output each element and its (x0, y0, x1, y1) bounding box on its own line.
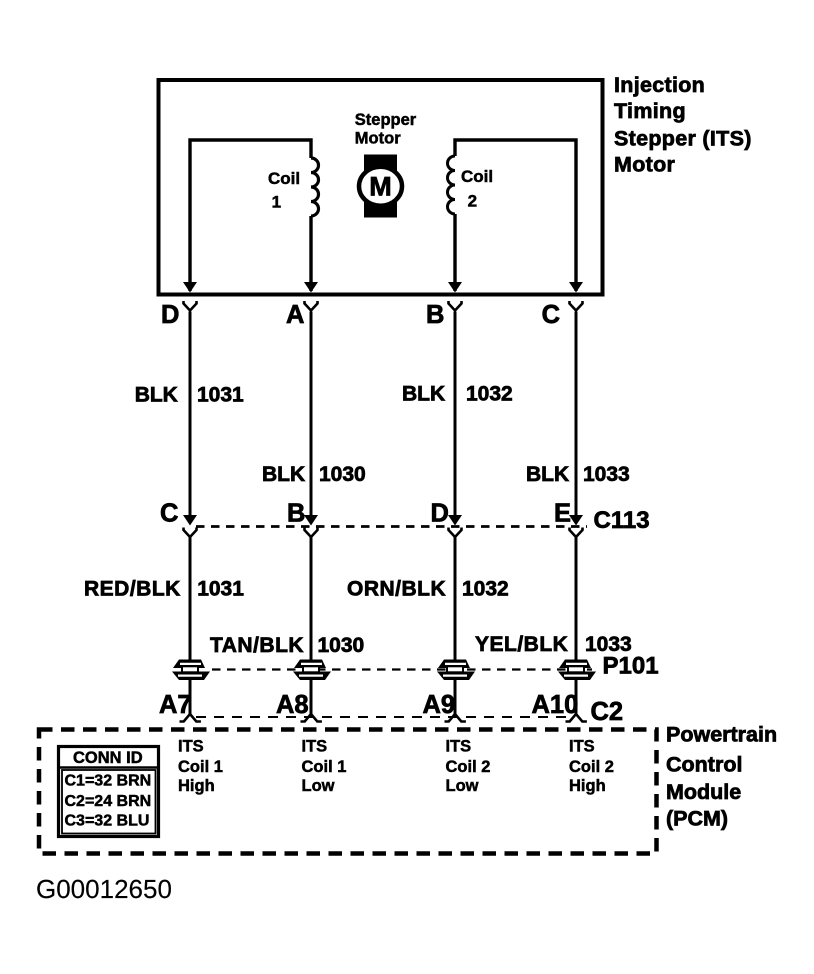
svg-text:C2=24 BRN: C2=24 BRN (65, 793, 152, 810)
svg-text:Coil 1: Coil 1 (178, 758, 223, 776)
label: BLK 1032 (402, 383, 513, 406)
svg-text:Timing: Timing (614, 99, 686, 123)
svg-text:C2: C2 (591, 698, 624, 726)
PCM pin terminals (180, 714, 201, 722)
svg-text:1031: 1031 (197, 578, 244, 601)
svg-text:M: M (369, 172, 392, 202)
svg-text:E: E (554, 500, 571, 528)
svg-text:Control: Control (666, 753, 742, 777)
C113 female terminals (184, 528, 197, 538)
connector C113 dashed line (196, 525, 587, 528)
svg-text:ITS: ITS (302, 738, 328, 756)
svg-text:Coil: Coil (461, 167, 493, 186)
connector P101 dashed line (212, 668, 592, 670)
svg-text:Coil 2: Coil 2 (569, 758, 614, 776)
svg-text:C1=32 BRN: C1=32 BRN (65, 773, 152, 790)
svg-text:1030: 1030 (318, 634, 365, 657)
svg-text:CONN ID: CONN ID (73, 749, 143, 767)
label: Injection Timing Stepper (ITS) Motor (614, 73, 752, 176)
svg-text:High: High (569, 777, 606, 795)
arrowheads at motor box bottom (pins D A B C) (183, 282, 197, 293)
svg-text:1032: 1032 (466, 383, 513, 406)
PCM pin function: ITS Coil 2 High (569, 738, 614, 795)
svg-text:BLK: BLK (135, 383, 178, 406)
svg-text:B: B (426, 301, 444, 329)
coil L1 (inductor winding, bulge right) (311, 158, 319, 216)
label: Powertrain Control Module (PCM) (666, 722, 777, 830)
svg-text:A: A (286, 301, 304, 329)
label: Coil 1 (268, 169, 300, 212)
svg-text:ITS: ITS (178, 738, 204, 756)
P101 inline connector symbols (173, 660, 205, 669)
svg-text:1033: 1033 (583, 463, 630, 486)
svg-text:C3=32 BLU: C3=32 BLU (65, 813, 150, 830)
label: ORN/BLK 1032 (347, 578, 509, 601)
svg-text:High: High (178, 777, 215, 795)
svg-text:Low: Low (302, 777, 335, 795)
ITS motor assembly box (159, 80, 603, 295)
svg-text:(PCM): (PCM) (666, 807, 728, 831)
svg-text:Low: Low (446, 777, 479, 795)
svg-text:D: D (431, 500, 449, 528)
CONN ID table (57, 747, 160, 837)
svg-text:1: 1 (272, 193, 281, 212)
PCM module dashed box (39, 730, 657, 854)
svg-text:1030: 1030 (319, 463, 366, 486)
svg-text:Motor: Motor (614, 153, 676, 177)
wire: coil 1 loop (left leg D, top, right leg A) (190, 140, 311, 291)
label: TAN/BLK 1030 (210, 634, 364, 657)
arrowheads at C113 (183, 515, 197, 526)
svg-text:YEL/BLK: YEL/BLK (475, 633, 568, 656)
svg-text:TAN/BLK: TAN/BLK (210, 634, 304, 657)
svg-text:B: B (287, 500, 305, 528)
svg-text:A9: A9 (423, 691, 456, 719)
svg-text:ITS: ITS (446, 738, 472, 756)
PCM pin function: ITS Coil 2 Low (446, 738, 491, 795)
label: Stepper Motor (355, 111, 417, 148)
label: RED/BLK 1031 (84, 578, 244, 601)
motor M (stepper) (359, 155, 402, 218)
wire: coil 1 right leg lower (309, 216, 312, 291)
svg-text:A10: A10 (532, 691, 579, 719)
wire segments P101 to PCM (189, 680, 192, 715)
svg-text:Coil: Coil (268, 169, 300, 188)
wire segments box to C113 (189, 312, 192, 517)
svg-text:D: D (161, 301, 179, 329)
label: BLK 1031 (135, 383, 244, 406)
PCM pins dashed line (196, 716, 568, 718)
label: YEL/BLK 1033 (475, 633, 632, 656)
svg-text:Module: Module (666, 780, 741, 804)
svg-text:Motor: Motor (355, 129, 401, 147)
label: Coil 2 (461, 167, 493, 211)
svg-text:A7: A7 (159, 691, 192, 719)
coil L2 (inductor winding, bulge left) (448, 156, 456, 214)
motor connector female terminals below box (184, 301, 197, 311)
svg-text:Stepper (ITS): Stepper (ITS) (614, 126, 752, 150)
svg-text:P101: P101 (603, 653, 659, 680)
svg-text:BLK: BLK (262, 463, 305, 486)
svg-text:Powertrain: Powertrain (666, 722, 777, 746)
wire: coil 2 loop (left leg B, top, right leg C) (455, 140, 576, 291)
wire segments C113 to P101 (189, 537, 192, 660)
svg-text:1031: 1031 (197, 383, 244, 406)
svg-text:ITS: ITS (569, 738, 595, 756)
svg-text:2: 2 (468, 192, 477, 211)
svg-text:1032: 1032 (462, 578, 509, 601)
svg-text:C: C (542, 301, 560, 329)
svg-text:Coil 1: Coil 1 (302, 758, 347, 776)
wire: coil 2 left leg lower (453, 214, 456, 291)
svg-text:ORN/BLK: ORN/BLK (347, 578, 446, 601)
svg-text:Stepper: Stepper (355, 111, 417, 129)
label: BLK 1033 (526, 463, 630, 486)
svg-text:C113: C113 (594, 507, 650, 534)
PCM pin function: ITS Coil 1 High (178, 738, 223, 795)
svg-text:BLK: BLK (526, 463, 569, 486)
svg-text:Injection: Injection (614, 73, 705, 97)
svg-text:A8: A8 (276, 691, 309, 719)
PCM pin function: ITS Coil 1 Low (302, 738, 347, 795)
svg-text:C: C (160, 500, 178, 528)
svg-text:BLK: BLK (402, 383, 445, 406)
svg-text:Coil 2: Coil 2 (446, 758, 491, 776)
svg-text:RED/BLK: RED/BLK (84, 578, 181, 601)
svg-text:G00012650: G00012650 (36, 874, 172, 904)
label: BLK 1030 (262, 463, 366, 486)
